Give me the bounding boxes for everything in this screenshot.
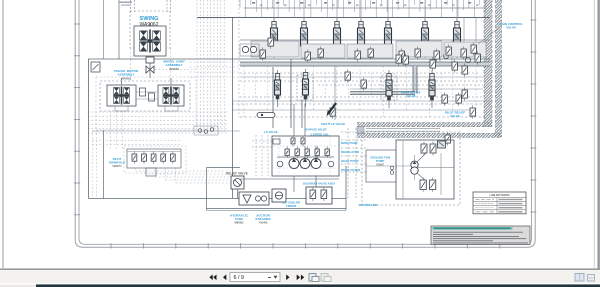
svg-text:SHUTTLE VALVE: SHUTTLE VALVE xyxy=(321,122,345,126)
pilot source circles xyxy=(240,44,259,56)
cartridge valve v26 xyxy=(445,133,450,146)
label bypass xyxy=(306,128,327,132)
label main valve xyxy=(499,22,522,30)
label fan line xyxy=(359,203,378,207)
swing brake valve xyxy=(146,56,154,63)
relief valve RV1 xyxy=(226,172,248,199)
wire x119 xyxy=(118,0,120,59)
main pump P1 xyxy=(289,159,299,169)
suction strainer xyxy=(272,189,286,202)
wire x103 xyxy=(103,0,105,59)
block internal drop wires xyxy=(244,66,476,117)
swing motor boundary xyxy=(130,11,170,48)
regulator valve r4 xyxy=(315,147,319,159)
right cluster wires xyxy=(440,17,476,63)
tank dashed line xyxy=(232,103,490,105)
sheet border outer xyxy=(75,0,535,247)
svg-text:WA9062: WA9062 xyxy=(140,22,159,28)
pilot line bundle horizontal xyxy=(88,62,238,133)
svg-text:2-SPEED SOL.: 2-SPEED SOL. xyxy=(310,133,329,137)
label pump 4 xyxy=(341,168,361,172)
svg-text:VALVE: VALVE xyxy=(406,94,416,98)
swing motor M1 xyxy=(134,23,166,56)
toolbar layout icon1 xyxy=(309,274,319,282)
control valve spool bucket xyxy=(334,0,341,58)
accumulator xyxy=(257,113,275,118)
svg-text:YN5496: YN5496 xyxy=(259,222,268,225)
leader main valve xyxy=(478,27,500,44)
pilot dashed c xyxy=(318,84,483,86)
cartridge valve v9 xyxy=(434,49,439,62)
taskbar strip xyxy=(0,283,600,287)
window inner right edge xyxy=(593,0,595,268)
main pump P2 xyxy=(300,159,310,169)
pilot line bundle vertical xyxy=(197,0,224,133)
suction pipe xyxy=(207,209,347,211)
valve section box 4 xyxy=(396,41,442,57)
cushion valve xyxy=(91,62,100,72)
work port wire d xyxy=(350,88,483,90)
cartridge valve v24 xyxy=(462,88,467,101)
svg-text:VALVE: VALVE xyxy=(450,114,460,118)
cartridge valve v3 xyxy=(305,50,310,63)
regulator valve r5 xyxy=(325,147,329,159)
toolbar prev-last button xyxy=(209,275,216,281)
valve block left dashed edge xyxy=(238,0,240,117)
svg-text:RETURN LINE: RETURN LINE xyxy=(359,203,378,207)
cartridge valve v2 xyxy=(268,36,273,49)
toolbar layout icon2 xyxy=(321,274,331,282)
pump assembly box xyxy=(240,136,339,179)
label pump 2 xyxy=(341,150,360,154)
regulator valve r3 xyxy=(305,147,309,159)
control valve spool arm1 xyxy=(301,0,308,58)
upper bus wire xyxy=(197,17,490,19)
cartridge valve v14 xyxy=(361,78,366,91)
swing drop dashes xyxy=(131,48,171,81)
statusbar icon window xyxy=(575,274,584,282)
cartridge valve v4 xyxy=(318,47,323,60)
bold marker arrow xyxy=(327,103,337,117)
window right edge band xyxy=(598,0,600,270)
main return wire xyxy=(89,59,347,199)
long wire y59 xyxy=(88,58,490,60)
svg-text:BYPASS VALVE: BYPASS VALVE xyxy=(306,128,327,132)
casing dashed line xyxy=(240,116,485,118)
lower assembly box xyxy=(207,168,241,211)
toolbar background xyxy=(0,269,600,283)
wire x103b xyxy=(103,130,105,199)
svg-text:STRAINER: STRAINER xyxy=(255,217,271,221)
cartridge valve v13 xyxy=(345,70,350,83)
label turning joint xyxy=(163,60,185,71)
label 2speed xyxy=(310,133,329,137)
label swing motor xyxy=(140,16,159,28)
svg-text:LS VALVE: LS VALVE xyxy=(264,130,277,134)
pump top valve t2 xyxy=(301,136,305,147)
cartridge valve v1 xyxy=(260,48,265,61)
return wire f xyxy=(232,100,490,102)
label solenoid xyxy=(303,182,336,186)
svg-text:REGULATOR: REGULATOR xyxy=(341,150,360,154)
svg-text:VALVE: VALVE xyxy=(506,26,516,30)
pump shaft xyxy=(277,146,334,159)
cartridge valve v25 xyxy=(470,106,475,119)
pilot manifold xyxy=(127,149,181,168)
sheet soft group xyxy=(74,0,536,249)
pump left dashed area xyxy=(252,135,272,176)
swing motor feed dashes xyxy=(131,0,171,12)
gray pipe branch xyxy=(350,92,415,95)
svg-text:ASSEMBLY: ASSEMBLY xyxy=(166,63,184,67)
pump box internals xyxy=(273,137,338,175)
label strainer xyxy=(255,214,271,225)
toolbar prev button xyxy=(223,275,226,281)
cartridge valve v22 xyxy=(442,93,447,106)
cartridge valve v6 xyxy=(368,47,373,60)
valve block casing hatch bottom outer xyxy=(357,133,502,137)
statusbar icon doc xyxy=(588,275,595,282)
cartridge valve v5 xyxy=(355,49,360,62)
svg-text:TANK: TANK xyxy=(235,217,244,221)
junction line xyxy=(92,130,240,132)
svg-text:WA9065: WA9065 xyxy=(169,68,179,71)
svg-text:GEAR PUMP: GEAR PUMP xyxy=(341,159,359,163)
gray pipe vertical xyxy=(413,66,417,93)
fan pump circles xyxy=(411,161,418,174)
note box xyxy=(431,226,530,245)
control valve spool boom1 xyxy=(271,0,278,58)
label travel motor xyxy=(114,69,139,80)
cartridge valve v12 xyxy=(471,43,476,56)
gray pipe pair xyxy=(240,62,490,66)
svg-text:LINE PATTERNS: LINE PATTERNS xyxy=(490,193,510,197)
pilot junction cluster xyxy=(194,126,218,135)
valve section box 3 xyxy=(347,44,393,58)
cartridge valve v11 xyxy=(461,47,466,60)
sheet zone ticks xyxy=(74,20,536,249)
work port wire a xyxy=(240,76,483,78)
valve section box 5 xyxy=(444,42,486,57)
travel motor right xyxy=(158,85,184,106)
control valve spool boom2 xyxy=(385,0,392,58)
label lower center xyxy=(321,122,345,126)
svg-text:MAIN PUMP: MAIN PUMP xyxy=(341,141,358,145)
pilot drop lines xyxy=(92,70,230,199)
pump top valve t1 xyxy=(291,136,295,147)
travel spool right xyxy=(297,69,313,107)
regulator valve r1 xyxy=(285,147,289,159)
toolbar page combobox xyxy=(230,273,280,282)
interconnect dashed web xyxy=(341,128,368,198)
riser wires xyxy=(233,17,336,198)
hydraulic tank xyxy=(239,192,269,205)
valve section box 2 xyxy=(301,44,345,58)
mid bus wire xyxy=(240,39,490,41)
pilot dashed e xyxy=(240,96,483,98)
svg-text:WA9070: WA9070 xyxy=(112,165,122,168)
top bus wire xyxy=(244,7,484,9)
travel motor left xyxy=(107,85,136,106)
regulator valve r2 xyxy=(295,147,299,159)
control valve spool swing xyxy=(358,0,365,58)
svg-text:PUMP: PUMP xyxy=(376,159,384,163)
fan box diagonals xyxy=(417,153,426,180)
cartridge valve v8 xyxy=(415,47,420,60)
svg-text:SWING: SWING xyxy=(140,16,159,22)
legend table xyxy=(473,192,526,214)
solenoid valve pair xyxy=(306,187,332,204)
drain wire xyxy=(232,109,470,111)
cartridge valve v18 xyxy=(462,64,467,77)
pilot dashed bus xyxy=(240,72,480,74)
cartridge valve v23 xyxy=(456,93,461,106)
aux spool2 xyxy=(429,70,435,108)
toolbar next-last button xyxy=(297,275,305,281)
control valve spool option xyxy=(454,0,461,58)
label pump 3 xyxy=(341,159,359,163)
turning joint xyxy=(146,63,154,78)
cartridge valve v15 xyxy=(396,53,401,66)
label oil cooler xyxy=(282,201,301,209)
svg-text:YN5302: YN5302 xyxy=(286,204,297,208)
label crankcase xyxy=(370,156,390,167)
casing corner connector xyxy=(357,127,440,134)
svg-text:YN9067: YN9067 xyxy=(376,165,385,167)
fan box wires xyxy=(366,140,454,199)
label ls valve xyxy=(264,130,277,134)
cartridge valve v17 xyxy=(452,60,457,73)
cartridge valve v7 xyxy=(399,49,404,62)
pilot dashed b xyxy=(240,80,483,82)
valve block casing hatch right inner xyxy=(484,0,492,127)
valve block casing hatch right outer xyxy=(496,0,502,137)
label pump 1 xyxy=(341,141,358,145)
fan pump box xyxy=(362,132,460,205)
label aux relief xyxy=(445,111,466,119)
travel spool left xyxy=(275,70,281,107)
cartridge valve v10 xyxy=(446,45,451,58)
cartridge valve v21 xyxy=(403,54,408,67)
toolbar next button xyxy=(286,275,289,281)
valve section box 1 xyxy=(251,41,299,57)
cartridge valve v16 xyxy=(430,58,435,71)
fan valve bottom xyxy=(420,178,436,192)
cartridge valve v19 xyxy=(475,52,480,65)
travel brake valves xyxy=(136,88,158,101)
gear pump P3 xyxy=(311,159,321,169)
svg-text:WB9962: WB9962 xyxy=(234,222,244,225)
top feeder wires xyxy=(240,0,485,18)
sheet border inner xyxy=(79,0,532,244)
cartridge valve v20 xyxy=(330,106,335,119)
valve block casing hatch bottom inner xyxy=(357,123,492,127)
svg-text:PILOT FILTER: PILOT FILTER xyxy=(341,168,361,172)
svg-text:ASSEMBLY: ASSEMBLY xyxy=(118,73,136,77)
svg-text:6 / 9: 6 / 9 xyxy=(234,275,245,281)
aux spool xyxy=(381,70,397,108)
svg-text:SOLENOID VALVE ASSY: SOLENOID VALVE ASSY xyxy=(303,182,336,186)
label main relief xyxy=(401,91,420,99)
svg-text:MANIFOLD: MANIFOLD xyxy=(109,161,126,165)
svg-text:WA9063: WA9063 xyxy=(121,77,131,80)
label tank xyxy=(230,214,248,225)
travel motors boundary xyxy=(100,81,190,111)
svg-text:RELIEF VALVE: RELIEF VALVE xyxy=(226,172,248,176)
window left edge xyxy=(2,0,4,268)
control valve spool arm2 xyxy=(422,0,429,58)
fan box inlet block xyxy=(438,141,446,148)
fan valve top xyxy=(421,142,436,156)
pilot manifold sub box xyxy=(146,168,156,176)
pump feed wires xyxy=(294,104,346,210)
top small text xyxy=(119,2,132,6)
travel motor drains xyxy=(115,78,178,111)
label pilot manifold xyxy=(109,157,126,168)
